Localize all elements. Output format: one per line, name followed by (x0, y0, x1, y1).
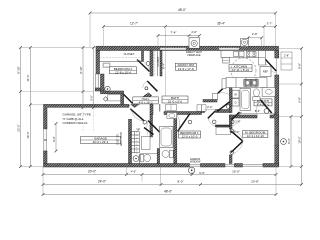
svg-text:13'-6 x 17'-8: 13'-6 x 17'-8 (178, 67, 194, 71)
door leaf: family room side door (147, 81, 157, 91)
door opening: kitchen rear door threshold (276, 58, 278, 75)
kitchen right counter (259, 51, 266, 66)
door leaf: m.bedroom closet lower (231, 141, 243, 152)
dimension line: second row 12-7 / 22-4 (104, 26, 276, 28)
door leaf: garage to entry (130, 109, 144, 121)
thin wall left of powder (138, 154, 140, 164)
door arc: family room side door (143, 81, 148, 88)
svg-text:WALL STOP: WALL STOP (120, 132, 123, 146)
stairs: entry ladder stairs (131, 132, 140, 154)
door arc: kitchen rear door (265, 59, 276, 73)
dimension line: left outer vertical (20, 48, 22, 167)
dimension line: left inner vertical (29, 48, 31, 167)
svg-text:11'-6": 11'-6" (26, 74, 30, 81)
svg-text:4'-6": 4'-6" (131, 169, 136, 173)
svg-text:36'-4": 36'-4" (217, 22, 225, 26)
extension at x=261.6 (261, 38, 263, 47)
svg-text:20'-0": 20'-0" (88, 170, 96, 174)
window: m.bedroom front window 1 (225, 164, 235, 166)
window: bedroom 2 bay window (95, 74, 98, 88)
door arc: m.bath door (257, 100, 261, 116)
room label: GARAGE (81, 137, 121, 145)
fireplace inner circle (193, 42, 195, 44)
svg-text:CLOSET: CLOSET (157, 56, 160, 66)
room label: BEDROOM 2 (110, 67, 137, 75)
dashed continuation of offset dims into garage (82, 108, 84, 133)
extension x=192 (191, 167, 193, 175)
wall line: powder north boundary (140, 153, 157, 155)
wall: hall closet right (160, 51, 162, 77)
linen closet box above bath vanity (166, 105, 177, 111)
door leaf: powder/closet door at entry (144, 128, 154, 135)
svg-text:2'-6": 2'-6" (252, 32, 258, 36)
svg-text:CLOSET: CLOSET (124, 52, 135, 56)
kitchen upper counter (221, 51, 262, 58)
refrigerator (260, 67, 271, 77)
hinge circle: bedroom 2 door (146, 62, 150, 66)
laundry sink (212, 93, 217, 99)
extension line at x=103.5 (103, 27, 105, 48)
window: bedroom 1 front window (190, 164, 201, 166)
wall: laundry west (229, 86, 232, 113)
extension line top-right (279, 47, 302, 49)
svg-text:4'-0 x 16'-2: 4'-0 x 16'-2 (138, 101, 153, 105)
wall: front exterior between windows (235, 164, 243, 168)
window: kitchen rear over sink (219, 48, 239, 50)
dimension line: bottom row1 (43, 174, 276, 176)
extension line kitchen-mbath (279, 83, 302, 85)
furniture rects: bedroom 2 (103, 63, 110, 68)
door arcs: m closet (232, 130, 243, 142)
svg-text:6'-0": 6'-0" (52, 136, 56, 141)
door leaf: m.bath door (260, 100, 271, 113)
hinge circle: family room side door (145, 87, 148, 90)
wall: house rear (top) exterior (96, 46, 279, 50)
wall: front exterior bed1-to-mbed (201, 164, 226, 168)
wall: garage rear / common wall (44, 104, 130, 107)
svg-text:WINDOW: WINDOW (190, 160, 201, 163)
window: family room rear (160, 48, 186, 50)
svg-text:20'-0 x 23'-4: 20'-0 x 23'-4 (93, 140, 109, 144)
water heater circle (133, 156, 139, 162)
wall: left exterior upper (bedroom 2) (96, 51, 100, 75)
wall: laundry nook north (203, 100, 217, 103)
room label: BATH (162, 96, 188, 104)
m.bath interior dim 8-4 (240, 113, 275, 115)
washer box (232, 90, 239, 98)
svg-text:COMMON WALLS: COMMON WALLS (63, 121, 88, 125)
wall: garage left exterior upper (44, 108, 48, 129)
wall: angled hall northwest (131, 93, 152, 108)
extension bottom-right corner (275, 167, 277, 195)
extension line mbath floor (279, 116, 302, 118)
wall: right exterior lower (275, 75, 279, 167)
dimension line: bottom row3 overall (43, 194, 276, 196)
dimension line: bedroom2 offset vertical b (93, 48, 95, 108)
door leaf: kitchen rear exterior door (265, 59, 276, 71)
door arc: hall bath door (147, 121, 148, 135)
kitchen peninsula counter (222, 78, 267, 89)
svg-text:6'-8": 6'-8" (297, 97, 301, 103)
m.bath vanity (262, 88, 275, 97)
dimension line: overall width 48-0 (90, 12, 276, 14)
closet front line: hall linen closet (157, 51, 159, 77)
wall: entry east / bath west upper (150, 115, 153, 138)
hinge circle: garage door (143, 121, 147, 125)
kitchen vent inner (243, 41, 245, 43)
closet box below (216, 127, 231, 134)
svg-text:10'-11 x 8'-10: 10'-11 x 8'-10 (232, 68, 250, 72)
hinge circle: bedroom 1 door (188, 120, 192, 124)
wall: bedroom 2 south / closet north (101, 91, 124, 94)
svg-text:20'-8": 20'-8" (251, 180, 259, 184)
wall: hall south / bath-bed1 north (164, 112, 202, 115)
wall: front (bottom) exterior left segment (44, 164, 190, 168)
hall bath toilet (170, 150, 174, 157)
svg-text:8'-10": 8'-10" (79, 66, 83, 73)
svg-text:22'-2": 22'-2" (16, 124, 20, 131)
wall line: hall-bath divider stub (159, 104, 161, 112)
extension at x=264 (263, 27, 265, 48)
extension x=160.5 (160, 167, 162, 185)
dryer box (232, 99, 239, 106)
extension line bottom-left corner (42, 167, 44, 195)
wall: bay window bottom return (95, 88, 104, 91)
svg-text:3'-6": 3'-6" (89, 95, 93, 101)
wall: right exterior upper (275, 51, 279, 59)
svg-text:8'-4": 8'-4" (255, 109, 261, 113)
extension line top-left to house (21, 47, 97, 49)
wall: powder / bath divider (157, 149, 159, 164)
svg-text:REF: REF (263, 70, 269, 74)
door arc: bedroom 2 door (137, 60, 150, 72)
svg-text:10'-0 x 5'-0: 10'-0 x 5'-0 (168, 100, 183, 104)
wall line: m.bath north (267, 87, 275, 89)
extension x=142 drop (141, 175, 143, 182)
door leaf: laundry lower door (217, 102, 230, 111)
back stoop at kitchen door (281, 52, 292, 70)
door leaf: hall closet left (208, 111, 215, 118)
extension line window sill y=91.5 (21, 91, 94, 93)
svg-text:2'-6": 2'-6" (235, 120, 240, 124)
room label: M. BEDROOM (242, 131, 268, 139)
svg-text:12'-0 x 10'-0: 12'-0 x 10'-0 (182, 135, 198, 139)
dimension line: bedroom2 offset vertical a (82, 48, 84, 108)
dimension line: right outer vertical (301, 48, 303, 184)
door arc: laundry upper (218, 93, 230, 95)
shelf boxes at hall end (197, 105, 202, 111)
extension line bottom-right (279, 166, 302, 168)
extension at x=158 (157, 36, 159, 48)
door leaf: m.bedroom closet upper (231, 131, 243, 141)
door leaf: hall closet right (231, 112, 239, 120)
room label: BEDROOM 1 (179, 131, 201, 139)
wall: m.bath south left (230, 115, 258, 118)
door arcs: hall closet pair (208, 118, 216, 126)
svg-text:15'-0": 15'-0" (232, 170, 240, 174)
svg-text:2'-8": 2'-8" (284, 54, 289, 58)
door leaf: laundry upper door (218, 82, 230, 93)
svg-text:D: D (235, 101, 237, 105)
hall bath tub (160, 127, 174, 148)
closet box in bedroom2 south closet (108, 94, 121, 101)
door arc: bedroom 1 door (177, 114, 180, 132)
dimension line: garage window interior (55, 124, 57, 152)
svg-text:12'-4 x 11'-10: 12'-4 x 11'-10 (247, 134, 265, 138)
wall: garage left exterior lower (44, 151, 48, 164)
wall: hall west stub at bath (150, 104, 153, 115)
room label: M. BATH (254, 99, 272, 107)
window: m.bedroom right wall (275, 135, 279, 145)
hall bath vanity (167, 113, 177, 119)
hose bib circle below bedroom 1 window (188, 167, 194, 173)
closet shelf line: bedroom 2 closet (100, 61, 142, 63)
extension x=126.5 (126, 167, 128, 175)
extension line bottom-left (21, 166, 44, 168)
door leaf: bedroom 1 door (178, 114, 191, 132)
door leaf: bedroom2 south closet door (124, 94, 133, 103)
door arc: closet door (125, 103, 133, 107)
dimension line: right inner vertical 8-6 (290, 117, 292, 167)
door leaf: hall bath door (148, 121, 160, 133)
wall: garage right / stair wall (129, 119, 132, 163)
wall: bedroom1-m.bedroom upper (229, 115, 232, 129)
svg-text:12'-8 x 10'-4: 12'-8 x 10'-4 (115, 70, 131, 74)
svg-text:12'-7": 12'-7" (130, 22, 138, 26)
svg-text:48'-0": 48'-0" (164, 190, 172, 194)
svg-text:6'-0": 6'-0" (199, 171, 205, 175)
svg-text:24'-0": 24'-0" (98, 180, 106, 184)
door arc: garage door (131, 109, 144, 121)
svg-text:8'-10": 8'-10" (16, 66, 20, 73)
wall: bedroom 2 west inner face (101, 74, 105, 91)
ceiling fan circle bedroom 2 (105, 86, 110, 91)
dimension line: kitchen vent 2-6 (248, 37, 262, 39)
room label: HALL (133, 97, 159, 105)
extension line right of top dim (275, 13, 277, 47)
svg-text:10'-2": 10'-2" (297, 136, 301, 143)
stair dashed center line (136, 128, 138, 154)
room label: FAMILY RM (175, 63, 196, 71)
closet front band: hall closet (215, 125, 230, 127)
dimension line: fireplace 7-4 and 2-0 (158, 35, 200, 37)
wall: closet east stub (121, 94, 124, 105)
window: m.bedroom front window 2 (243, 164, 264, 166)
stove burners (248, 52, 250, 54)
fireplace outer circle (191, 40, 197, 46)
m.bath tub (240, 89, 251, 111)
svg-text:FIREPLACE: FIREPLACE (187, 54, 201, 57)
powder toilet (140, 155, 143, 162)
dashed circle: kitchen eating nook (231, 58, 256, 83)
room label: KITCHEN (229, 65, 252, 73)
extension line garage top-left (30, 104, 43, 106)
svg-text:8'-6": 8'-6" (287, 138, 291, 144)
wall: bedroom 2 right (150, 51, 153, 77)
wall: bedroom1-m.bedroom lower (229, 155, 232, 164)
wall: front exterior right corner (263, 164, 279, 168)
wall: m.bath south right (270, 115, 279, 118)
svg-text:8'-0": 8'-0" (297, 63, 301, 69)
extension line left of top dim (89, 13, 91, 47)
dishwasher rects at family room edge (223, 58, 230, 64)
door leaf: bedroom 2 entry (137, 60, 150, 72)
hinge circle: m closet lower (230, 151, 234, 155)
kitchen vent circle (241, 39, 247, 45)
extension line interior x=165.7 (165, 28, 167, 96)
interior dim 2-0 at closet (205, 109, 216, 111)
hinge circle: laundry lower door (226, 105, 230, 109)
svg-text:2'-0": 2'-0" (191, 30, 197, 34)
closet box: water heater closet (142, 137, 151, 150)
svg-text:8'-4": 8'-4" (161, 63, 165, 69)
hinge circle: m.bath door (264, 109, 269, 114)
dimension line: bottom row2 (43, 184, 302, 186)
wall: bath east / bedroom 1 west (174, 115, 177, 164)
window: garage left wall (44, 129, 47, 151)
svg-text:7'-4": 7'-4" (171, 31, 177, 35)
diamond symbol at closet west end (103, 97, 108, 102)
fireplace: direct vent box on rear wall (189, 38, 200, 48)
wall: closet north stub left (202, 110, 205, 113)
svg-text:8'-0": 8'-0" (178, 180, 184, 184)
wall: closet north center (216, 110, 232, 113)
ac unit circle right of m.bedroom (281, 139, 287, 145)
svg-text:2'-0": 2'-0" (207, 105, 212, 109)
kitchen vent circle on rear wall (241, 39, 249, 47)
hinge circle: hall closet left (212, 120, 216, 124)
hinge circle: hall closet right (231, 120, 235, 124)
svg-text:3'-7": 3'-7" (267, 22, 273, 26)
svg-text:UP: UP (137, 128, 141, 131)
svg-text:19'-6": 19'-6" (26, 131, 30, 138)
svg-text:48'-0": 48'-0" (178, 8, 186, 12)
wall: bedroom 2 closet return (142, 51, 144, 62)
hinge circle: m closet upper (230, 129, 234, 133)
m.bath toilet (253, 89, 259, 97)
